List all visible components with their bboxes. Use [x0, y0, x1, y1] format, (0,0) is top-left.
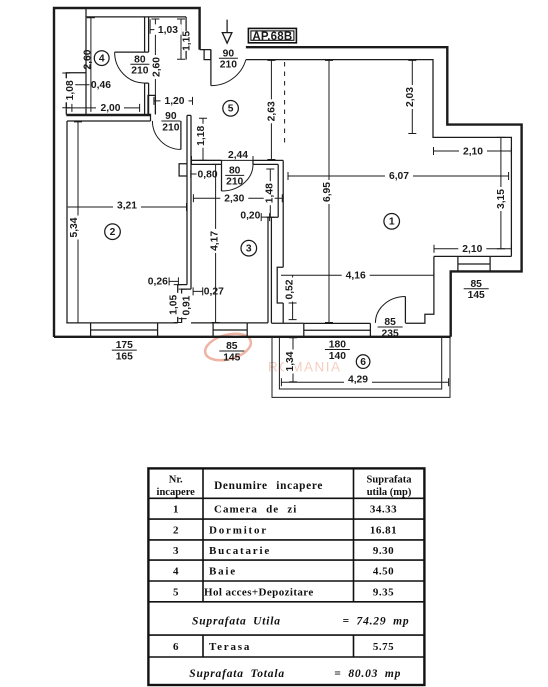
door room4 80/210 arc — [115, 52, 145, 83]
svg-text:= 80.03 mp: = 80.03 mp — [334, 668, 401, 680]
svg-text:1,03: 1,03 — [158, 25, 178, 36]
svg-text:3: 3 — [173, 545, 179, 557]
dashed boundary hall-living — [284, 62, 286, 143]
svg-text:140: 140 — [329, 351, 346, 362]
svg-text:1,15: 1,15 — [182, 31, 193, 51]
svg-text:85: 85 — [470, 279, 482, 290]
wall room2 west inner — [66, 121, 68, 323]
svg-text:6,07: 6,07 — [389, 171, 409, 182]
wall hall-living lower step 0,20 — [268, 217, 278, 323]
label 3,21 — [113, 200, 141, 211]
svg-text:2,44: 2,44 — [228, 150, 248, 161]
room circle 1 camera de zi — [384, 214, 400, 230]
svg-text:210: 210 — [226, 177, 243, 188]
svg-text:2,10: 2,10 — [463, 146, 483, 157]
svg-text:0,27: 0,27 — [204, 287, 224, 298]
dim 3,21 — [68, 203, 187, 211]
door kitchen 80/210 leaf — [221, 164, 223, 191]
svg-text:210: 210 — [131, 66, 148, 77]
label 2,60 nook — [151, 55, 162, 79]
dim 1,34 — [289, 338, 297, 382]
svg-text:2,10: 2,10 — [462, 244, 482, 255]
svg-text:Dormitor: Dormitor — [209, 524, 268, 536]
svg-text:4,16: 4,16 — [346, 271, 366, 282]
svg-text:145: 145 — [223, 352, 240, 363]
wall living SE inner — [434, 255, 512, 257]
terrace outline outer — [272, 338, 450, 398]
label 5,34 — [68, 216, 79, 240]
dim 5,34 — [74, 122, 82, 323]
svg-text:utila (mp): utila (mp) — [367, 487, 412, 498]
svg-text:Suprafata: Suprafata — [367, 475, 413, 486]
svg-text:0,52: 0,52 — [284, 279, 295, 299]
dim 2,10 top — [434, 147, 512, 155]
label 4,16 — [342, 270, 370, 281]
label 1,08 — [64, 78, 75, 102]
dim 2,63 — [267, 60, 275, 159]
svg-text:Nr.: Nr. — [169, 475, 183, 486]
svg-text:235: 235 — [382, 328, 399, 339]
dim 2,44 — [192, 156, 254, 165]
label 1,15 — [182, 31, 192, 51]
svg-text:3: 3 — [246, 244, 252, 255]
door terrace 85/235 leaf — [404, 297, 406, 323]
label 6,07 — [385, 170, 413, 181]
svg-text:175: 175 — [116, 340, 133, 351]
dim 1,48 — [266, 169, 274, 217]
wall kitchen top — [191, 160, 222, 164]
label 2,44 — [224, 150, 252, 160]
svg-text:4.50: 4.50 — [373, 566, 394, 578]
svg-text:4: 4 — [173, 566, 179, 578]
svg-text:4: 4 — [99, 53, 105, 64]
label 1,48 — [264, 181, 275, 205]
wall nook east — [185, 17, 187, 60]
dim 4,17 — [212, 164, 220, 322]
label 0,52 — [284, 278, 295, 302]
room circle 4 baie — [94, 51, 109, 66]
wall entrance-living inner top — [246, 60, 512, 257]
svg-text:2,60: 2,60 — [82, 49, 93, 69]
svg-text:4,29: 4,29 — [348, 375, 368, 386]
svg-text:3,21: 3,21 — [117, 201, 137, 212]
table borders — [148, 468, 424, 685]
svg-text:Bucatarie: Bucatarie — [209, 545, 271, 557]
svg-text:80: 80 — [229, 166, 241, 177]
wall entrance jamb — [200, 50, 211, 60]
dim 0,91 ticks — [179, 289, 187, 319]
label 2,30 — [220, 193, 248, 204]
svg-text:16.81: 16.81 — [370, 524, 397, 536]
svg-text:0,46: 0,46 — [91, 80, 111, 91]
svg-text:2: 2 — [173, 524, 179, 536]
svg-text:AP.68B: AP.68B — [252, 31, 292, 43]
svg-text:6: 6 — [360, 357, 366, 368]
window 175/165 room2 — [91, 323, 158, 337]
wall room4 west — [85, 8, 87, 115]
svg-text:9.30: 9.30 — [373, 545, 394, 557]
svg-text:0,20: 0,20 — [240, 211, 260, 222]
dim 2,10 bottom — [434, 245, 511, 253]
room circle 6 terasa — [356, 355, 370, 369]
dim 2,30 — [193, 194, 282, 202]
svg-text:Suprafata Utila: Suprafata Utila — [192, 616, 281, 628]
svg-text:2,00: 2,00 — [100, 103, 120, 114]
svg-text:9.35: 9.35 — [373, 586, 394, 598]
svg-text:6,95: 6,95 — [322, 182, 333, 202]
door room2 90/210 leaf — [180, 121, 182, 149]
svg-text:1,08: 1,08 — [65, 80, 76, 100]
svg-text:2,03: 2,03 — [405, 87, 416, 107]
label 3,15 — [495, 187, 506, 211]
dim 2,60 nook — [151, 19, 159, 115]
door entrance 90/210 arc — [211, 60, 246, 86]
label 2,63 — [266, 99, 277, 123]
svg-text:3,15: 3,15 — [496, 189, 507, 209]
label 1,34 — [284, 350, 295, 374]
svg-text:2: 2 — [110, 227, 116, 238]
room circle 5 hol — [223, 101, 239, 117]
door room2 90/210 arc — [152, 121, 181, 149]
wall room4 east upper — [145, 17, 149, 52]
svg-text:90: 90 — [165, 111, 177, 122]
door terrace 85/235 arc — [375, 297, 405, 323]
dim 4,16 — [281, 271, 434, 279]
svg-text:1,18: 1,18 — [196, 126, 207, 146]
wall outer top-right — [246, 47, 522, 337]
svg-text:Camera de zi: Camera de zi — [214, 504, 297, 516]
door kitchen 80/210 arc — [222, 164, 254, 191]
svg-text:Hol acces+Depozitare: Hol acces+Depozitare — [204, 586, 314, 598]
dim 1,18 — [199, 118, 207, 160]
svg-text:2,30: 2,30 — [224, 194, 244, 205]
label 4,17 — [209, 229, 220, 253]
dim 0,27 — [193, 287, 203, 295]
svg-text:1,48: 1,48 — [265, 183, 276, 203]
svg-text:1: 1 — [173, 504, 179, 516]
wall bottom inner living east step — [405, 256, 434, 323]
dim 0,80 — [191, 170, 197, 178]
label 2,10 bottom — [458, 243, 486, 254]
door entrance 90/210 leaf — [210, 50, 212, 86]
wall room4 east lower — [145, 83, 149, 115]
svg-text:4,17: 4,17 — [209, 231, 220, 251]
svg-text:1,34: 1,34 — [285, 351, 296, 371]
svg-text:0,91: 0,91 — [181, 295, 192, 315]
label 2,10 top — [459, 146, 487, 157]
svg-text:145: 145 — [468, 290, 485, 301]
niche alcove room4 — [66, 73, 86, 115]
svg-text:5: 5 — [173, 586, 179, 598]
svg-text:210: 210 — [220, 60, 237, 71]
dim 2,03 — [408, 60, 416, 133]
room circle 3 bucatarie — [241, 240, 257, 256]
window 180/140 living — [304, 323, 371, 336]
watermark — [202, 329, 341, 374]
dim 2,00 room4 — [66, 104, 139, 112]
svg-text:0,80: 0,80 — [198, 169, 218, 180]
svg-text:80: 80 — [134, 54, 146, 65]
svg-text:= 74.29 mp: = 74.29 mp — [343, 616, 410, 628]
dim 6,07 — [288, 172, 509, 180]
wall outer bottom — [54, 336, 451, 338]
wall outer top-left — [54, 8, 200, 337]
label 6,95 — [321, 180, 332, 204]
svg-text:incapere: incapere — [157, 487, 196, 498]
svg-text:180: 180 — [329, 340, 346, 351]
AP.68B title box — [248, 28, 296, 42]
svg-text:Suprafata Totala: Suprafata Totala — [189, 668, 285, 680]
dim 1,15 — [177, 19, 185, 59]
svg-text:0,26: 0,26 — [148, 277, 168, 288]
svg-text:Denumire incapere: Denumire incapere — [214, 480, 323, 492]
svg-text:210: 210 — [162, 122, 179, 133]
wall room2 top band — [66, 114, 150, 116]
svg-text:1,20: 1,20 — [164, 96, 184, 107]
svg-text:2,63: 2,63 — [267, 101, 278, 121]
wall bottom inner room2 — [66, 322, 177, 324]
dim 4,29 — [281, 378, 448, 386]
wall hall-living recess — [277, 267, 283, 323]
label 1,05 — [168, 293, 179, 317]
dim 1,03 — [150, 19, 180, 34]
label 0,91 — [181, 294, 192, 318]
svg-text:5,34: 5,34 — [69, 217, 80, 237]
wall rooms2-3 divider — [187, 115, 191, 289]
wall bottom inner kitchen — [191, 322, 268, 324]
wall inner top (rooms 4/5) — [86, 16, 186, 18]
svg-text:85: 85 — [384, 317, 396, 328]
pier bottom rooms2-3 — [178, 285, 191, 323]
label 2,03 — [404, 85, 415, 109]
window 85/145 living east — [458, 256, 490, 271]
svg-text:1,05: 1,05 — [168, 295, 179, 315]
dim 1,05 ticks — [174, 285, 182, 323]
wall hall-living upper — [278, 160, 283, 267]
pier above room2 door — [148, 95, 155, 114]
svg-text:Baie: Baie — [209, 566, 237, 578]
svg-text:6: 6 — [173, 641, 179, 653]
dim 0,46 — [66, 81, 89, 89]
dim 2,60 room4 — [87, 18, 95, 104]
svg-text:85: 85 — [226, 341, 238, 352]
label 4,29 — [344, 374, 372, 385]
svg-text:165: 165 — [116, 351, 133, 362]
svg-text:Terasa: Terasa — [209, 641, 251, 653]
dim 1,20 — [154, 97, 193, 105]
label 1,03 — [154, 24, 181, 34]
svg-text:5: 5 — [228, 104, 234, 115]
label 2,00 — [96, 102, 124, 113]
label 1,20 — [161, 95, 189, 106]
entrance arrow — [226, 20, 228, 33]
door room4 80/210 leaf — [115, 51, 145, 53]
dim 0,20 — [261, 213, 269, 221]
svg-text:90: 90 — [223, 48, 235, 59]
dim 1,08 — [62, 73, 70, 108]
window 85/145 kitchen — [213, 323, 247, 337]
label 1,18 — [195, 124, 206, 148]
dim 0,26 — [169, 277, 178, 285]
dim 3,15 — [497, 137, 505, 248]
pilaster on divider — [179, 164, 187, 176]
svg-text:2,60: 2,60 — [152, 57, 163, 77]
svg-text:5.75: 5.75 — [373, 641, 394, 653]
wall bottom inner living west — [271, 322, 304, 324]
svg-text:34.33: 34.33 — [370, 504, 397, 516]
dim 0,52 — [289, 275, 297, 319]
svg-text:1: 1 — [389, 217, 395, 228]
terrace outline inner — [279, 338, 441, 389]
dim 6,95 — [325, 60, 333, 322]
room circle 2 dormitor — [105, 224, 121, 240]
